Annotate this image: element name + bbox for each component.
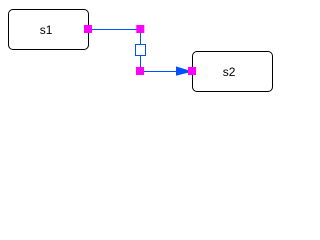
svg-text:s1: s1: [40, 23, 53, 37]
svg-text:s2: s2: [223, 65, 236, 79]
arrowhead into s2: [176, 66, 193, 75]
handle: transition source on s1 edge: [84, 25, 92, 33]
state s1: [9, 10, 89, 50]
wire: transition horizontal segment from s1: [89, 29, 141, 31]
handle: upper corner: [136, 25, 144, 33]
midpoint junction (hollow square): [136, 45, 146, 56]
handle: transition destination on s2 edge: [188, 67, 196, 75]
wire: transition horizontal segment into s2: [140, 71, 192, 73]
wire: transition vertical segment: [140, 29, 142, 72]
handle: lower corner: [136, 67, 144, 75]
state s2: [193, 52, 273, 92]
